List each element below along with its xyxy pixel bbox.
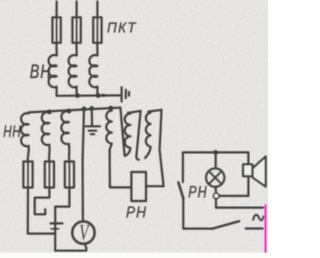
wire phase B supply <box>75 2 77 18</box>
wire AC upper terminal <box>216 207 263 209</box>
wire LV bus to VT winding <box>120 108 124 156</box>
lamp HL cross <box>209 171 222 184</box>
VT winding 2 top bar <box>148 110 161 112</box>
magenta scan line <box>265 205 267 258</box>
switch bar lower <box>51 228 58 230</box>
wire fuse a down <box>28 188 55 234</box>
junction LV bus winding d tap <box>108 106 113 111</box>
wire fuse F2 to HV coil <box>75 43 77 56</box>
junction LV bus b <box>47 110 52 115</box>
relay РН box <box>131 172 146 201</box>
svg-text:НН: НН <box>3 123 21 142</box>
wire VT winding 2 to relay <box>146 185 164 187</box>
switch bar upper <box>51 222 63 224</box>
wire LV coil c to fuse <box>68 144 71 162</box>
wire phase A supply <box>55 2 57 18</box>
LV winding coil b <box>42 112 50 145</box>
HV winding coil phase C <box>89 55 97 87</box>
junction HV neutral phase B <box>75 93 80 98</box>
VT winding 1 right leg <box>136 111 140 160</box>
LV winding coil d <box>106 111 111 151</box>
wire HV coil A to neutral bus <box>55 87 57 96</box>
wire alarm left lower <box>183 198 212 228</box>
ground LV bar3 <box>91 133 94 135</box>
wire HV coil B to neutral bus <box>75 87 77 96</box>
wire LV bus <box>29 108 121 113</box>
fuse LV c <box>65 162 74 188</box>
horn cone <box>253 156 266 186</box>
wire through LV fuse c <box>68 162 70 188</box>
junction alarm lamp tap <box>213 150 218 155</box>
fuse LV a <box>23 162 32 188</box>
LV winding coil a <box>21 113 29 146</box>
label ~ AC source <box>253 215 263 220</box>
junction HV neutral phase C <box>96 93 101 98</box>
wire through LV fuse a <box>27 162 29 188</box>
ground LV bar2 <box>89 130 97 132</box>
fuse ПКТ F1 <box>52 17 60 43</box>
lamp terminal circle <box>213 193 219 199</box>
wire fuse c down <box>55 188 80 251</box>
wire through fuse F3 <box>96 17 98 43</box>
ground HV neutral bar3 <box>128 92 130 96</box>
ground HV neutral bar1 <box>120 87 122 101</box>
wire winding d to relay <box>110 150 132 187</box>
junction LV bus c <box>67 109 72 114</box>
wire LV coil a to fuse <box>28 146 29 162</box>
wire through fuse F2 <box>76 17 78 43</box>
VT winding 2 right leg <box>160 110 164 186</box>
VT winding 2 coil <box>145 112 150 158</box>
ground LV bar1 <box>86 125 100 127</box>
wire fuse b to open contact <box>35 188 50 215</box>
speaker box <box>243 164 252 176</box>
ground HV neutral bar2 <box>125 90 127 98</box>
junction LV bus ground tap <box>89 106 94 111</box>
wire voltmeter return <box>80 243 86 250</box>
wire lamp top <box>215 152 217 168</box>
blob HV bus <box>101 94 105 97</box>
wire alarm top bus <box>183 151 249 153</box>
fuse ПКТ F3 <box>93 17 101 43</box>
wire speaker bottom <box>219 176 248 196</box>
svg-text:ПКТ: ПКТ <box>107 19 137 35</box>
fuse ПКТ F2 <box>72 17 80 43</box>
wire LV bus to voltmeter <box>83 109 84 221</box>
fuse LV b <box>45 162 54 188</box>
wire speaker top <box>247 152 249 164</box>
HV winding coil phase B <box>69 55 77 87</box>
lamp HL circle <box>206 168 224 186</box>
wire through LV fuse b <box>48 162 50 188</box>
bottom white strip <box>0 253 268 258</box>
svg-text:РН: РН <box>188 184 207 202</box>
wire through fuse F1 <box>56 17 58 43</box>
wire lamp bottom <box>214 187 217 193</box>
VT winding 1 top bar <box>128 111 141 113</box>
voltmeter V <box>72 221 94 243</box>
wire terminal down <box>215 199 217 208</box>
wire LV coil b to fuse <box>48 145 51 162</box>
LV winding coil c <box>61 111 69 144</box>
wire HV neutral bus <box>57 94 121 97</box>
wire HV coil C to neutral bus <box>96 87 98 96</box>
wire contact kink <box>178 182 183 198</box>
wire alarm left drop <box>182 152 184 182</box>
HV winding coil phase A <box>49 55 57 87</box>
wire AC fixed contact <box>246 227 263 229</box>
VT winding 1 coil <box>125 113 131 156</box>
wire phase C supply <box>96 2 98 18</box>
wire LV ground drop <box>91 109 93 126</box>
switch РН blade <box>212 221 239 229</box>
junction LV bus voltmeter tap <box>82 107 87 112</box>
svg-text:РН: РН <box>126 204 147 221</box>
wire fuse F3 to HV coil <box>96 43 98 56</box>
wire fuse F1 to HV coil <box>55 43 57 56</box>
